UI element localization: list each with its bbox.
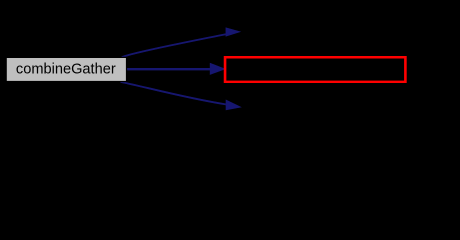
svg-text:combineGather: combineGather bbox=[16, 62, 116, 78]
